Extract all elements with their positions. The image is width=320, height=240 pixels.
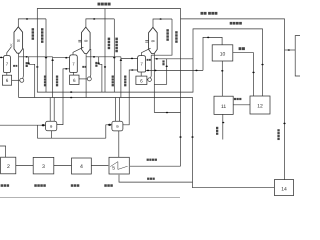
flash box 6 (effect 1) — [2, 75, 11, 85]
wire vent branch down (effect 1) — [29, 57, 35, 98]
wire heater7 to box6 (effect 2) — [73, 72, 75, 75]
pump (effect 1) — [20, 78, 24, 82]
arrow down into box 12 — [261, 64, 263, 66]
label ABF — [208, 12, 217, 15]
wire vapor from column 8 top (effect 1) — [18, 19, 46, 27]
wire box4 to box5 — [91, 165, 108, 167]
svg-text:2: 2 — [7, 164, 10, 170]
wire condenser 10 to box 12 — [233, 53, 254, 96]
svg-text:4: 4 — [80, 164, 83, 170]
wire drain below box 11 — [222, 114, 224, 139]
label under box 2 — [1, 184, 10, 187]
arrow into heater (effect 2) — [65, 57, 67, 59]
wire heater7 to box6 (effect 3) — [140, 72, 142, 76]
wire pump riser to column (effect 1) — [22, 49, 25, 79]
label AE — [201, 12, 207, 15]
label at heater outlet (effect 3) — [147, 59, 151, 61]
arrow into pump box 9b — [108, 124, 111, 126]
bottom frame line — [0, 197, 180, 199]
svg-text:11: 11 — [221, 104, 226, 110]
arrow on vapor line (effect 3) — [159, 18, 161, 20]
wire vapor downpipe (effect 2 to heater 3) — [113, 19, 115, 92]
arrow into pump box 9a — [42, 124, 45, 126]
label Fk branch (effect 2) — [95, 62, 97, 67]
wire vapor downpipe (effect 1 to heater 2) — [45, 19, 47, 92]
label vertical lower-left (effect 1) — [44, 76, 46, 87]
separator column 8 (effect 1) — [14, 27, 23, 53]
wire into heater 7 (effect 2) — [53, 57, 70, 59]
flash box 6 (effect 3) — [136, 76, 147, 84]
arrow on feed header riser — [179, 136, 181, 138]
condenser box 10 — [212, 45, 233, 61]
wire heater neck to column (effect 1) — [7, 46, 12, 55]
wire column 8 bottoms down (effect 1) — [18, 53, 20, 97]
valve cross at column 8 nozzle (effect 1) — [10, 44, 12, 47]
pump box 9a — [46, 121, 57, 131]
wire pump 9b second riser — [119, 98, 121, 122]
arrow down on riser to tank 14 — [191, 136, 193, 138]
nozzle stub 2 column 8 (effect 3) — [145, 41, 148, 43]
pump box 9b — [112, 121, 123, 131]
arrow on collector line 2 — [70, 97, 72, 99]
label vertical lower-left (effect 2) — [112, 76, 114, 87]
label vertical lower-right (effect 1) — [56, 76, 58, 87]
label on box5 bottom line — [147, 178, 155, 180]
arrow condenser to box 12 — [252, 72, 254, 74]
label between 11 and 12 — [234, 98, 242, 100]
box 5 with diagonal — [109, 157, 129, 174]
wire bottoms jog (effect 3) — [154, 83, 166, 85]
wire heater neck to column (effect 2) — [73, 47, 83, 55]
arrow on vent branch (effect 1) — [28, 62, 30, 64]
wire box3 to box4 — [54, 165, 72, 167]
label at heater outlet (effect 1) — [13, 65, 17, 67]
wire pump 9a second riser — [53, 98, 55, 122]
arrow on downpipe 120.9 — [120, 59, 122, 61]
label under box 4 — [71, 184, 80, 187]
svg-text:6: 6 — [140, 78, 143, 83]
heater 7 (effect 2) — [70, 55, 78, 73]
label vertical on steam downpipe left (effect 1) — [32, 28, 34, 40]
svg-text:14: 14 — [281, 186, 287, 192]
arrow on heater 3 condensate line — [147, 70, 149, 72]
arrow on condensate line near riser — [195, 70, 197, 72]
label on box5 outlet — [147, 159, 157, 161]
wire pump riser to column (effect 3) — [149, 55, 152, 78]
arrow on vapor downpipe (effect 2) — [113, 57, 115, 59]
label 4# (effect 1) — [26, 62, 28, 67]
label under box 3 — [34, 184, 46, 187]
wire feed downpipe (effect 2) — [104, 9, 106, 93]
wire top right line to tank 14 — [181, 19, 285, 180]
wire pump 9b suction from collector — [115, 98, 117, 122]
arrow into box 13 — [288, 49, 290, 51]
arrow 2 on heater 3 condensate line — [154, 70, 156, 72]
svg-text:6: 6 — [73, 78, 76, 83]
flash box 6 (effect 2) — [70, 75, 79, 84]
arrow on vapor downpipe (effect 1) — [45, 57, 47, 59]
label vertical on vapor downpipe (effect 1) — [41, 28, 43, 43]
nozzle stub column 8 (effect 3) — [145, 40, 148, 42]
wire feed into pump box 9a — [0, 124, 46, 126]
box 13 (cut off at edge) — [295, 36, 300, 76]
wire pump riser to column (effect 2) — [89, 49, 92, 77]
arrow on feed downpipe (effect 1) — [36, 66, 38, 68]
svg-text:5: 5 — [112, 166, 115, 172]
label FW — [239, 47, 245, 50]
wire box5 bottom to tank riser — [119, 175, 193, 182]
arrow into heater 3 lower inlet — [131, 69, 133, 71]
wire into heater 7 (effect 3) — [121, 57, 138, 59]
label top feed line — [98, 3, 111, 6]
arrow condenser to box 11 — [221, 70, 223, 72]
wire condenser 10 to box 11 — [221, 61, 223, 96]
wire pump 9b discharge riser into heater 3 — [123, 70, 138, 125]
separator column 8 (effect 3) — [149, 27, 158, 53]
nozzle stub 2 column 8 (effect 2) — [78, 41, 81, 43]
wire transfer line effect1 to effect2 — [19, 56, 53, 58]
label vertical right of downpipe (effect 3) — [175, 31, 177, 43]
label on line to box 12 — [230, 22, 242, 25]
wire box6 to pump (effect 1) — [12, 79, 20, 81]
wire pump 9a discharge riser into heater 2 — [57, 69, 70, 125]
wire raw feed stub into heater 7 — [0, 56, 4, 58]
wire pump 9a bottom drop — [51, 131, 53, 138]
wire vent branch down (effect 3) — [166, 59, 168, 85]
wire recycle into box 2 top — [0, 146, 6, 157]
svg-text:10: 10 — [220, 51, 226, 57]
heater 7 (effect 1) — [4, 56, 11, 73]
arrow on drain below box 11 — [222, 122, 224, 124]
box 4 — [72, 158, 92, 174]
arrow into condenser 10 — [207, 37, 209, 39]
pump (effect 3) — [148, 78, 152, 82]
wire drop to lower transfer line — [36, 125, 38, 138]
wire transfer line effect2 to effect3 — [86, 56, 121, 58]
arrow at vapor downpipe junction — [166, 112, 168, 114]
wire pump 9b to box 5 — [118, 131, 120, 157]
wire lower transfer line to pump 9b riser — [37, 137, 105, 139]
arrow on downpipe 52.6 — [51, 59, 53, 61]
box 2 — [1, 157, 16, 174]
wire box 11 to box 12 — [233, 104, 250, 106]
arrow on vent branch (effect 2) — [98, 62, 100, 64]
svg-text:3: 3 — [42, 164, 45, 170]
box 3 — [33, 157, 54, 174]
wire heater 3 condensate to riser — [146, 69, 203, 71]
wire downpipe at 120.9 (effect 2) — [120, 57, 122, 98]
tank 14 — [274, 180, 293, 196]
wire column 3 bottoms to downpipe — [154, 58, 193, 60]
arrow on transfer line effect2 — [93, 56, 95, 58]
arrow into heater 2 lower inlet — [65, 68, 67, 70]
label vertical at drain of box 11 — [216, 127, 218, 135]
wire branch into box 13 — [285, 49, 296, 51]
wire box6 to pump (effect 3) — [146, 79, 149, 81]
separator column 8 (effect 2) — [82, 27, 91, 53]
wire distillate collector to tank 14 — [19, 98, 275, 188]
wire feed header from box5 up over the top to effect units — [37, 9, 180, 167]
heater 7 (effect 3) — [138, 56, 146, 72]
arrow on feed downpipe (effect 2) — [104, 66, 106, 68]
arrow on bottoms line (effect 3) — [156, 58, 158, 60]
nozzle stub column 8 (effect 2) — [78, 39, 81, 41]
wire vapor downpipe into heater 3 top — [151, 19, 172, 55]
label vertical on line to tank 14 — [277, 129, 279, 140]
pump (effect 2) — [87, 77, 91, 81]
label vertical lower-right (effect 2) — [124, 76, 126, 87]
wire to vapor downpipe junction — [154, 112, 180, 114]
arrow down to tank 14 — [283, 123, 285, 125]
wire feed riser into pump box 9b — [106, 125, 112, 138]
label under box 5 — [104, 184, 113, 187]
wire condensate collector to box 12 — [37, 29, 262, 96]
wire box2 to box3 — [16, 165, 33, 167]
arrow on vapor line (effect 2) — [93, 18, 95, 20]
wire vent branch down (effect 2) — [99, 57, 102, 92]
label vertical left of downpipe (effect 3) — [166, 29, 168, 41]
arrow raw feed into heater 7 — [0, 57, 2, 59]
arrow on vent branch (effect 3) — [166, 66, 168, 68]
arrow on collector line 1 — [70, 91, 72, 93]
wire vapor from column top (effect 3) — [153, 19, 172, 27]
wire column bottoms down (effect 2) — [85, 54, 87, 98]
wire box6 to pump (effect 2) — [79, 78, 87, 80]
arrow into heater (effect 3) — [131, 58, 133, 60]
wire riser into condenser 10 — [203, 37, 222, 70]
label vertical on downpipe right (effect 2) — [115, 38, 117, 53]
svg-text:6: 6 — [6, 78, 9, 83]
arrow on vapor line (effect 1) — [26, 18, 28, 20]
wire heater7 to box6 (effect 1) — [6, 73, 8, 76]
label vertical on downpipe left (effect 2) — [108, 38, 110, 50]
box 11 — [214, 96, 233, 114]
wire heater neck to column (effect 3) — [141, 48, 150, 55]
box 12 — [250, 96, 270, 114]
label at heater outlet (effect 2) — [82, 66, 86, 68]
wire downpipe at 52.6 (effect 1) — [52, 57, 54, 98]
wire pump 9a suction from collector — [49, 98, 51, 122]
wire column bottoms down (effect 3) — [153, 54, 155, 113]
arrow on transfer line effect1 — [25, 56, 27, 58]
wire vapor from column top (effect 2) — [86, 19, 114, 27]
svg-text:12: 12 — [257, 104, 263, 110]
label branch (effect 3) — [162, 60, 164, 65]
wire box5 outlet to feed header riser — [130, 165, 181, 167]
